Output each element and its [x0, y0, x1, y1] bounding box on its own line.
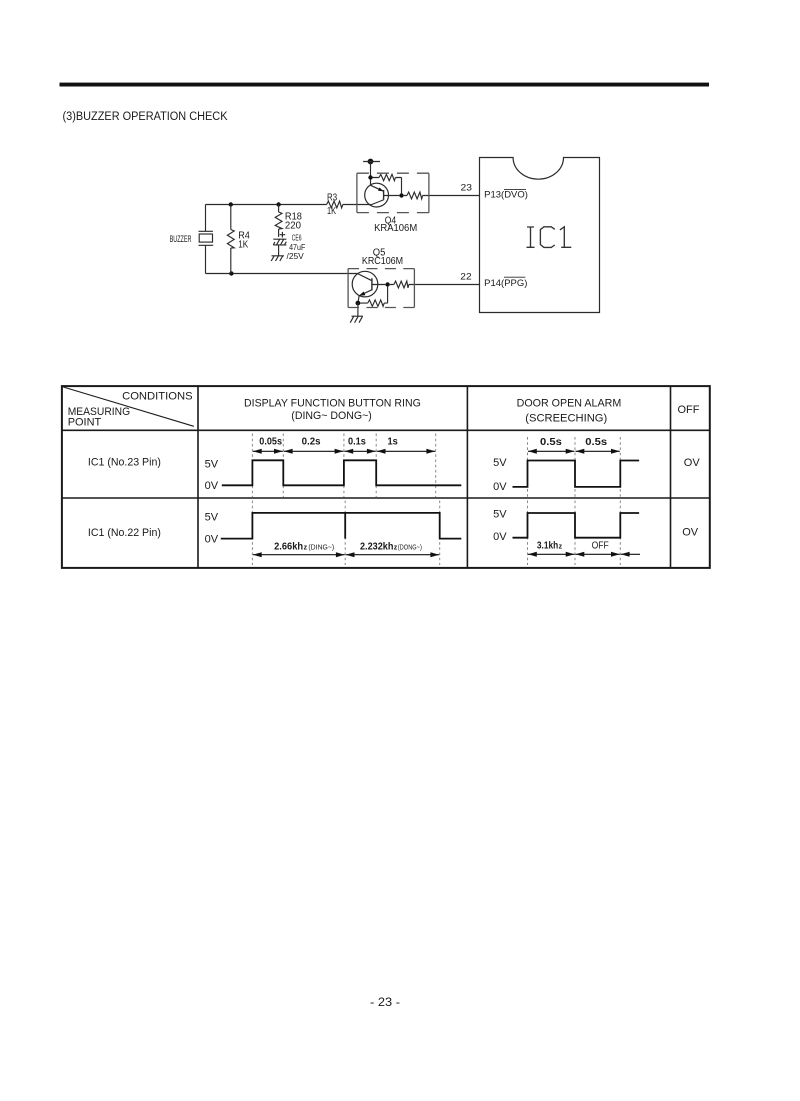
ground under Q5: [350, 316, 363, 323]
svg-text:5V: 5V: [493, 457, 507, 469]
wire to pin 22: [409, 284, 480, 286]
svg-text:0.5s: 0.5s: [585, 437, 607, 448]
svg-text:- 23 -: - 23 -: [370, 995, 400, 1009]
node Q5 collector: [385, 282, 389, 286]
svg-text:IC1 (No.23 Pin): IC1 (No.23 Pin): [88, 456, 161, 468]
svg-text:P13(DVO): P13(DVO): [484, 190, 528, 200]
svg-text:(DONG~): (DONG~): [398, 543, 422, 552]
svg-text:BUZZER: BUZZER: [170, 234, 192, 245]
svg-text:1s: 1s: [388, 437, 399, 448]
svg-text:(DING~ DONG~): (DING~ DONG~): [291, 410, 372, 422]
svg-text:P14(PPG): P14(PPG): [484, 278, 527, 288]
svg-text:0.5s: 0.5s: [540, 437, 562, 448]
transistor Q5: [352, 271, 378, 297]
wire top net: [206, 204, 327, 206]
capacitor C6 plus sign: [280, 232, 286, 238]
row1 col2 arrows: [253, 450, 283, 452]
node Q4 emitter: [368, 175, 372, 179]
row2 col3 continuation arrow: [621, 553, 640, 555]
IC1 body: [480, 158, 600, 313]
wire Q5 emitter to ground: [357, 303, 359, 316]
svg-text:22: 22: [460, 272, 471, 283]
svg-text:R3: R3: [327, 193, 337, 204]
node bottom R4: [229, 271, 233, 275]
svg-text:0V: 0V: [493, 531, 507, 543]
node Q5 emitter: [356, 301, 361, 306]
svg-text:OFF: OFF: [592, 541, 609, 552]
svg-text:POINT: POINT: [68, 416, 102, 428]
Q5 dashed package box: [348, 269, 414, 308]
resistor R18: [278, 205, 280, 237]
svg-text:5V: 5V: [493, 508, 507, 520]
svg-text:5V: 5V: [205, 511, 219, 523]
Q5 internal bias resistor: [360, 287, 388, 307]
svg-text:(DING~): (DING~): [308, 543, 334, 552]
svg-text:DOOR OPEN ALARM: DOOR OPEN ALARM: [517, 398, 622, 410]
svg-text:KRC106M: KRC106M: [362, 256, 403, 267]
svg-text:220: 220: [285, 221, 302, 232]
Vcc symbol: [368, 159, 374, 165]
svg-text:KRA106M: KRA106M: [374, 223, 417, 234]
svg-text:1K: 1K: [238, 240, 248, 251]
Q5 output resistor: [390, 281, 409, 288]
row2 col2 waveform: [221, 513, 461, 539]
row1 col3 waveform: [513, 461, 640, 487]
IC1 label (stroke font): [527, 227, 572, 248]
node top R4: [229, 202, 233, 206]
svg-text:3.1kh: 3.1kh: [537, 541, 558, 552]
svg-text:OFF: OFF: [678, 404, 700, 416]
header diagonal: [63, 387, 194, 426]
wire Vcc to Q4: [370, 162, 372, 186]
svg-text:z: z: [304, 545, 308, 552]
wire R3 to Q4: [343, 204, 371, 206]
svg-text:0.2s: 0.2s: [302, 437, 321, 448]
node Q4 collector: [399, 193, 403, 197]
svg-text:0V: 0V: [205, 480, 219, 492]
svg-text:(SCREECHING): (SCREECHING): [525, 412, 607, 424]
svg-text:OV: OV: [682, 527, 699, 539]
svg-text:OV: OV: [684, 457, 701, 469]
svg-text:2.232kh: 2.232kh: [360, 542, 393, 553]
table row lines: [62, 430, 710, 498]
row1 col2 guide lines: [252, 434, 435, 498]
svg-text:z: z: [559, 544, 563, 551]
svg-text:IC1 (No.22 Pin): IC1 (No.22 Pin): [88, 527, 161, 539]
node top R18: [276, 202, 280, 206]
Q4 dashed package box: [357, 173, 429, 212]
svg-text:(3)BUZZER OPERATION CHECK: (3)BUZZER OPERATION CHECK: [63, 109, 228, 123]
svg-text:2.66kh: 2.66kh: [274, 542, 303, 553]
row1 col3 guide lines: [528, 437, 621, 498]
row2 col3 arrows: [528, 553, 575, 555]
svg-text:1K: 1K: [327, 206, 336, 217]
svg-text:0V: 0V: [205, 534, 219, 546]
wire bottom net: [206, 273, 358, 275]
row2 col3 guide lines: [528, 501, 621, 566]
ground under C6: [271, 256, 284, 261]
svg-text:23: 23: [461, 183, 473, 194]
svg-text:0V: 0V: [493, 481, 507, 493]
Q4 internal bias resistor: [373, 174, 402, 193]
wire to pin 23: [423, 195, 480, 197]
header rule bar: [60, 83, 710, 87]
row2 col3 waveform: [513, 513, 640, 538]
transistor Q4: [365, 183, 389, 207]
svg-text:0.1s: 0.1s: [348, 437, 366, 448]
row1 col3 arrows: [528, 450, 575, 452]
capacitor C6: [273, 239, 286, 245]
row2 col2 guide lines: [252, 501, 439, 566]
table column lines: [198, 386, 671, 568]
resistor R4: [230, 205, 232, 274]
buzzer BZ: [199, 205, 214, 274]
svg-text:/25V: /25V: [287, 251, 305, 261]
table outer border: [62, 386, 710, 568]
row2 col2 arrows: [253, 554, 345, 556]
svg-text:CONDITIONS: CONDITIONS: [122, 390, 193, 402]
resistor R3: [327, 201, 343, 208]
svg-text:DISPLAY FUNCTION BUTTON RING: DISPLAY FUNCTION BUTTON RING: [244, 397, 421, 409]
Q4 output resistor: [404, 192, 423, 199]
svg-text:5V: 5V: [205, 459, 219, 471]
row1 col2 waveform: [222, 460, 461, 485]
svg-text:0.05s: 0.05s: [259, 437, 282, 448]
